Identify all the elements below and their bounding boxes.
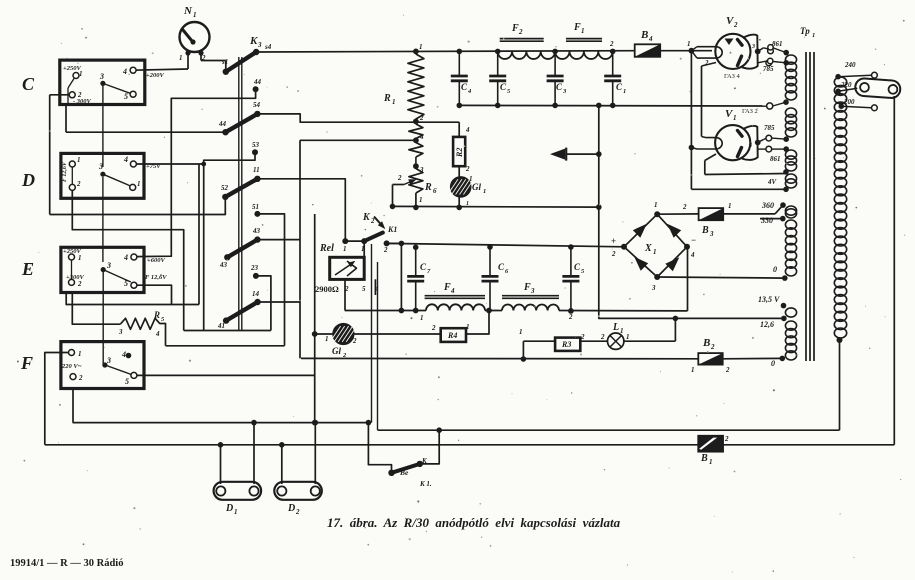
svg-text:360: 360 [761,201,774,210]
svg-text:D: D [287,503,295,514]
svg-text:1: 1 [79,70,83,78]
svg-text:3: 3 [748,143,752,149]
svg-text:4: 4 [648,35,653,43]
svg-text:3: 3 [751,44,755,50]
svg-text:1: 1 [519,328,523,336]
svg-text:B: B [700,453,708,464]
svg-text:11: 11 [253,166,260,174]
svg-text:1: 1 [466,323,470,331]
svg-text:2: 2 [518,28,523,36]
svg-text:ГАЗ 2: ГАЗ 2 [742,108,758,115]
svg-text:17. ábra. Az R/30 anódpótló el: 17. ábra. Az R/30 anódpótló elvi kapcsol… [327,515,621,530]
svg-text:2: 2 [704,59,709,67]
svg-text:R: R [383,93,391,104]
svg-text:3: 3 [99,72,104,81]
svg-text:1: 1 [733,114,737,122]
svg-text:2: 2 [77,280,82,288]
svg-text:2: 2 [465,165,470,173]
svg-text:1: 1 [709,458,713,466]
svg-text:R2: R2 [455,148,464,158]
svg-text:2: 2 [724,435,729,443]
svg-text:43: 43 [219,261,228,269]
svg-text:C: C [420,262,427,272]
svg-text:+300V: +300V [66,274,84,281]
svg-text:2: 2 [580,333,585,341]
svg-text:1: 1 [812,32,815,39]
svg-text:4: 4 [122,67,127,76]
svg-text:52: 52 [221,184,229,192]
svg-text:B: B [640,29,648,41]
svg-text:3: 3 [118,328,123,336]
svg-text:1: 1 [419,196,423,204]
svg-text:1: 1 [137,180,141,188]
svg-text:F: F [443,282,451,293]
svg-text:1: 1 [78,254,82,262]
svg-text:R: R [153,310,160,320]
svg-text:R3: R3 [561,340,571,349]
svg-text:2: 2 [725,366,730,374]
svg-text:Rel: Rel [319,243,334,254]
svg-text:54: 54 [253,101,261,109]
svg-text:5: 5 [125,377,129,386]
svg-text:1: 1 [78,350,82,358]
svg-text:4: 4 [123,253,128,262]
svg-text:330: 330 [760,216,773,225]
svg-text:1: 1 [581,27,585,35]
svg-text:1: 1 [620,327,624,335]
svg-text:3: 3 [651,284,656,292]
svg-text:1: 1 [361,245,365,253]
svg-text:4: 4 [155,330,160,338]
svg-text:s1: s1 [221,58,228,66]
svg-text:44: 44 [218,120,227,128]
svg-text:2900Ω: 2900Ω [315,284,339,294]
svg-text:4: 4 [374,285,379,293]
svg-text:5: 5 [124,92,128,101]
svg-text:2: 2 [344,285,349,293]
svg-text:4: 4 [123,155,128,164]
svg-text:K1: K1 [387,225,397,234]
svg-text:51: 51 [252,203,259,211]
svg-text:2: 2 [201,54,206,62]
svg-text:N: N [183,5,193,17]
svg-text:1: 1 [392,98,396,106]
svg-text:44: 44 [253,78,262,86]
svg-text:861: 861 [772,40,783,48]
svg-text:2: 2 [733,21,738,29]
svg-text:2: 2 [78,374,83,382]
svg-text:E: E [21,259,34,279]
svg-text:2: 2 [568,313,573,321]
svg-text:1: 1 [653,248,657,256]
svg-text:43: 43 [252,227,261,235]
svg-text:Gl: Gl [332,346,341,356]
svg-text:C: C [498,262,505,272]
svg-text:1: 1 [691,366,695,374]
svg-text:C: C [556,82,563,92]
svg-text:3: 3 [106,261,111,270]
svg-text:1: 1 [483,188,486,195]
svg-text:1: 1 [325,335,329,343]
svg-text:2: 2 [397,174,402,182]
svg-text:Be: Be [399,468,409,477]
svg-text:240: 240 [844,61,856,69]
svg-text:1: 1 [420,314,424,322]
svg-text:3: 3 [257,41,262,49]
svg-text:3: 3 [106,356,111,365]
svg-text:2: 2 [76,180,81,188]
svg-text:F: F [523,282,531,293]
svg-text:4: 4 [419,133,424,141]
svg-text:s4: s4 [264,43,272,51]
svg-text:2: 2 [383,246,388,254]
svg-text:2: 2 [419,114,424,122]
svg-text:6: 6 [433,187,437,195]
svg-text:4: 4 [690,251,695,259]
svg-text:D: D [225,503,233,514]
svg-text:14: 14 [252,290,260,298]
svg-text:1: 1 [419,43,423,51]
svg-text:785: 785 [764,124,775,132]
svg-text:F 12,6V: F 12,6V [62,161,68,182]
svg-text:C: C [574,262,581,272]
svg-text:1: 1 [193,11,197,19]
svg-text:3: 3 [709,230,714,238]
svg-text:1: 1 [654,201,658,209]
svg-text:D: D [21,170,35,190]
svg-text:2: 2 [710,343,715,351]
svg-text:F 12,6V: F 12,6V [145,274,167,281]
svg-text:+600V: +600V [147,257,165,264]
svg-text:ГАЗ 4: ГАЗ 4 [724,73,740,80]
svg-text:2: 2 [370,217,375,225]
svg-text:B: B [702,337,710,349]
svg-text:C: C [500,82,507,92]
svg-text:Тр: Тр [800,26,810,36]
svg-text:B: B [701,225,709,236]
svg-text:K 1.: K 1. [419,480,432,488]
svg-text:53: 53 [252,141,260,149]
svg-text:+: + [611,236,616,246]
svg-text:1: 1 [234,508,238,516]
svg-text:+200V: +200V [146,72,164,79]
svg-text:R: R [424,182,432,193]
svg-text:23: 23 [250,264,259,272]
svg-text:5: 5 [362,285,366,293]
svg-text:4: 4 [465,126,470,134]
svg-text:1: 1 [626,333,630,341]
svg-text:4: 4 [450,287,455,295]
svg-text:F: F [573,22,581,33]
svg-text:3: 3 [419,166,424,174]
svg-text:1: 1 [728,202,732,210]
svg-text:−: − [691,235,696,245]
svg-text:R4: R4 [447,331,457,340]
svg-text:220 V~: 220 V~ [61,363,82,370]
svg-text:220: 220 [840,81,852,89]
svg-text:K: K [249,35,258,47]
svg-text:2: 2 [600,333,605,341]
svg-text:2: 2 [682,203,687,211]
svg-text:X: X [644,243,652,254]
svg-text:785: 785 [763,65,774,73]
svg-text:2: 2 [295,508,300,516]
svg-text:F: F [511,23,519,34]
svg-text:0: 0 [771,359,775,368]
svg-text:1: 1 [77,156,81,164]
svg-text:1: 1 [623,88,626,95]
svg-text:1: 1 [466,201,469,207]
svg-text:Gl: Gl [472,182,481,192]
svg-text:4V: 4V [767,178,778,186]
svg-text:C: C [461,82,468,92]
svg-text:L: L [612,322,619,333]
svg-text:200: 200 [843,98,855,106]
svg-text:- 300V: - 300V [73,98,92,105]
svg-text:+75V: +75V [146,163,161,170]
svg-text:1: 1 [343,245,347,253]
svg-text:F: F [20,353,33,373]
svg-text:C: C [22,74,35,94]
svg-text:3: 3 [530,287,535,295]
svg-text:2: 2 [611,250,616,258]
svg-text:13,5 V: 13,5 V [758,295,780,304]
svg-text:K: K [362,212,371,223]
svg-text:5: 5 [124,279,128,288]
svg-text:19914/1 — R — 30 Rádió: 19914/1 — R — 30 Rádió [10,558,123,569]
svg-text:2: 2 [431,324,436,332]
svg-text:2: 2 [609,40,614,48]
svg-text:0: 0 [773,265,777,274]
svg-text:2: 2 [352,337,357,345]
svg-text:12,6: 12,6 [760,320,774,329]
svg-text:861: 861 [770,155,781,163]
svg-text:1: 1 [687,40,691,48]
svg-text:4: 4 [121,350,126,359]
svg-text:1: 1 [179,54,183,62]
svg-text:C: C [616,82,623,92]
svg-text:41: 41 [217,322,225,330]
svg-text:3: 3 [98,162,103,171]
